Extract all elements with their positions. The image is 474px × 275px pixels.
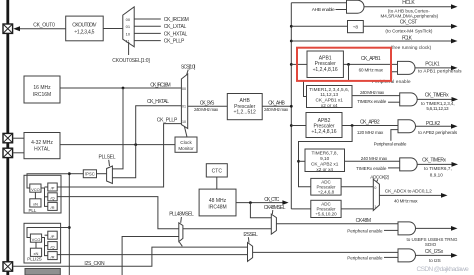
oscillator block HXTAL [24, 133, 60, 159]
svg-text:CK_LXTAL: CK_LXTAL [164, 24, 187, 30]
svg-text:SDIO: SDIO [425, 242, 437, 247]
junction PLL feed top [68, 172, 71, 175]
svg-text:/R: /R [51, 205, 55, 210]
wire TIMER6 output to gate [345, 160, 400, 162]
wire PLLI2S internal VCO to dividers [42, 238, 48, 256]
svg-text:CK_ADCX to ADC0,1,2: CK_ADCX to ADC0,1,2 [385, 188, 432, 194]
block PLL outer [24, 175, 61, 213]
select line into I2SSEL mux [247, 237, 250, 242]
wire TIMERx enable stub [388, 167, 400, 169]
wire peripheral enable riser PCLK2 [391, 130, 398, 141]
wire AHB enable stub [336, 9, 347, 11]
wire peripheral enable stub USB [384, 229, 398, 231]
svg-text:11,12,13: 11,12,13 [320, 92, 338, 97]
svg-text:Peripheral enable: Peripheral enable [347, 229, 383, 234]
junction CK_AHB feed [290, 105, 293, 108]
select line into SCS mux [186, 70, 188, 78]
wire bus to HCLK gate [291, 2, 346, 4]
svg-text:SCS[1:0]: SCS[1:0] [181, 64, 196, 70]
wire CK_IRC16M from IRC16M to SCS mux [60, 87, 181, 89]
wire pin to HXTAL box (top) [13, 137, 24, 139]
block PLLI2S /R [48, 252, 57, 260]
svg-text:/Q: /Q [50, 196, 54, 201]
wire mux input stub 00 [134, 18, 161, 20]
wire /PSC output to PLL feed [69, 173, 83, 175]
block APB2 Prescaler [306, 113, 342, 138]
block CTC [206, 164, 227, 177]
svg-text:/R: /R [51, 254, 55, 259]
wire IRC48M down to CK48M mux [250, 203, 271, 218]
svg-text:00: 00 [182, 87, 186, 91]
block Clock Monitor [175, 137, 197, 152]
svg-text:÷1,2,4,8,16: ÷1,2,4,8,16 [313, 67, 338, 73]
svg-text:8,9,10: 8,9,10 [430, 172, 443, 177]
mux PLL48MSEL [179, 223, 183, 242]
link SCS mux to clock monitor [184, 126, 187, 137]
svg-text:CK_OUT0: CK_OUT0 [33, 22, 55, 28]
oscillator block IRC48M [199, 189, 236, 216]
svg-text:0: 0 [374, 186, 376, 190]
svg-text:IRC16M: IRC16M [33, 92, 51, 98]
svg-text:(free running clock): (free running clock) [391, 45, 432, 50]
junction PLL feed to PLLI2S [68, 226, 71, 229]
svg-text:4-32 MHz: 4-32 MHz [31, 140, 53, 146]
junction IRC48M branch [249, 201, 252, 204]
wire wrap into TIMER6 block [299, 160, 306, 162]
svg-text:to APB2 peripherals: to APB2 peripherals [418, 130, 458, 135]
svg-text:CK_HXTAL: CK_HXTAL [164, 31, 188, 37]
svg-text:10: 10 [126, 31, 131, 36]
svg-text:240 MHz max: 240 MHz max [264, 107, 289, 112]
wire PLL48MSEL output to CK48M mux [183, 228, 271, 230]
block TIMER multiplier APB2 [305, 149, 345, 172]
wire mux input stub 10 [134, 32, 161, 34]
wire APB2 wrap to TIMER/ADC [299, 126, 353, 187]
svg-text:CK_AHB: CK_AHB [268, 101, 285, 107]
block PLL VCO [30, 184, 41, 192]
junction APB2 wrap to TIMER6 [297, 160, 300, 163]
wire ADC prescaler 2 to ADCCK mux [341, 208, 373, 210]
svg-text:CK_TIMERx: CK_TIMERx [422, 158, 446, 164]
block TIMER multiplier APB1 [307, 86, 353, 109]
junction bus to APB2 [290, 124, 293, 127]
svg-text:÷8: ÷8 [353, 25, 359, 31]
and-gate CK_TIMERx (APB2) [400, 158, 418, 171]
svg-text:PCLK1: PCLK1 [425, 61, 440, 67]
svg-text:AHB enable: AHB enable [312, 7, 335, 13]
svg-text:TIMERx enable: TIMERx enable [357, 99, 386, 104]
svg-text:CK_SYS: CK_SYS [200, 101, 215, 107]
highlight red box around APB1 prescaler [297, 48, 391, 81]
block divider by 8 [348, 21, 364, 33]
svg-text:CTC: CTC [212, 169, 223, 175]
wire TIMERx enable stub [388, 101, 400, 103]
wire bus bottom into ADC prescaler 2 [291, 208, 311, 210]
svg-text:CK_PLLP: CK_PLLP [164, 39, 185, 45]
svg-text:M4,SRAM,DMA,peripherals): M4,SRAM,DMA,peripherals) [381, 14, 439, 19]
svg-text:x2 or x4: x2 or x4 [321, 103, 338, 108]
wire CK_TIMERx output with arrow [417, 163, 452, 165]
svg-text:CK_TIMERx: CK_TIMERx [425, 93, 449, 99]
svg-text:÷2,4,6,8: ÷2,4,6,8 [318, 189, 335, 194]
svg-text:CSDN @dajkhadawe: CSDN @dajkhadawe [417, 266, 470, 273]
and-gate I2S clock [398, 249, 416, 262]
svg-text:÷1,2,3,4,5: ÷1,2,3,4,5 [74, 30, 94, 36]
svg-text:CK_IRC16M: CK_IRC16M [150, 83, 170, 89]
block hidden PLL (cut off at bottom) [25, 269, 60, 275]
svg-text:VCO: VCO [32, 237, 41, 242]
junction CK_APB2 branch [351, 124, 354, 127]
block PLLI2S outer [24, 223, 61, 263]
svg-text:TIMER1,2,3,4,5,6,: TIMER1,2,3,4,5,6, [309, 87, 349, 92]
wire CK_I2Sx to I2S gate [253, 251, 398, 253]
svg-text:/P: /P [51, 186, 55, 191]
svg-text:PLLI2S: PLLI2S [27, 256, 41, 261]
wire CK_PLLP from /P to SCS input 10 [57, 124, 181, 187]
svg-text:CKOUT0SEL[1:0]: CKOUT0SEL[1:0] [112, 58, 150, 64]
svg-text:xN: xN [33, 202, 38, 207]
mux CK48MSEL [271, 214, 276, 234]
wire CK_OUT0 with arrow into pin [20, 28, 66, 30]
pin CK_OUT0 [3, 24, 13, 33]
wire APB1 wrap to TIMER multiplier [304, 64, 349, 96]
wire CK_APB2 to PCLK2 gate [342, 125, 398, 127]
svg-text:to I2S: to I2S [429, 258, 441, 263]
svg-text:9,10: 9,10 [320, 156, 330, 161]
junction bus to divider [290, 25, 293, 28]
wire CK_HXTAL riser to SCS input 01 [136, 106, 182, 145]
block PLL xN [30, 199, 41, 207]
wire PLL feed vertical [68, 174, 70, 275]
svg-text:CK_APB1: CK_APB1 [361, 56, 381, 62]
wire PCLK1 output with arrow [415, 67, 452, 69]
svg-text:(to Cortex-M4 SysTick): (to Cortex-M4 SysTick) [385, 28, 432, 33]
svg-text:CK_CST: CK_CST [400, 19, 418, 25]
block PLL /Q [48, 193, 57, 201]
wire mux input stub 01 [134, 25, 161, 27]
wire CK_SYS from SCS mux to AHB prescaler [188, 105, 228, 107]
svg-text:00: 00 [126, 17, 131, 22]
junction on CK_IRC16M for PLLSEL [122, 87, 125, 90]
svg-text:01: 01 [182, 105, 186, 109]
svg-text:CK48M: CK48M [356, 218, 372, 224]
svg-text:240 MHz max: 240 MHz max [361, 156, 388, 161]
svg-text:240 MHz max: 240 MHz max [194, 107, 219, 112]
wire CK_I2Sx output with arrow [416, 254, 453, 256]
wire CK_PLLQ from /Q to PLL48MSEL [57, 197, 179, 229]
pin HXTAL out [3, 148, 13, 157]
oscillator block IRC16M [24, 76, 60, 103]
wire CTC to IRC48M [216, 177, 218, 189]
left I/O rail bus [6, 0, 9, 275]
block AHB Prescaler [227, 94, 262, 120]
wire pin to HXTAL box (bottom) [13, 152, 24, 154]
select line into ADCCK mux [377, 179, 378, 181]
wire PLLSEL output to /PSC [97, 173, 107, 175]
wire CK_HXTAL from HXTAL to Clock Monitor [60, 144, 175, 146]
svg-text:PLL48MSEL: PLL48MSEL [169, 212, 194, 218]
svg-text:I2S_CKIN: I2S_CKIN [84, 261, 105, 267]
svg-text:FCLK: FCLK [402, 36, 413, 42]
wire riser from hidden PLL to PLL48MSEL [122, 237, 179, 275]
svg-text:5,6,11,12,13: 5,6,11,12,13 [426, 106, 449, 111]
wire CK_CTC with arrow [236, 202, 284, 204]
svg-text:Peripheral enable: Peripheral enable [347, 256, 383, 261]
svg-text:CK_I2Sx: CK_I2Sx [425, 249, 444, 255]
svg-text:to TIMER6,7,: to TIMER6,7, [424, 166, 452, 171]
wire CK_ADCx output with arrow [379, 194, 442, 196]
svg-text:I2SSEL: I2SSEL [243, 232, 258, 238]
wire CK_PLLI2SR from /R to I2SSEL mux [57, 254, 247, 256]
wire CK_CST output with arrow [363, 25, 452, 27]
wire mux input stub 11 [134, 40, 161, 42]
svg-text:/Q: /Q [50, 244, 54, 249]
select line into PLL48MSEL mux [180, 217, 183, 223]
svg-text:xN: xN [34, 251, 39, 256]
junction bus to FCLK [290, 40, 293, 43]
wire peripheral enable riser PCLK1 [392, 72, 398, 80]
svg-text:x2 or x4: x2 or x4 [316, 167, 333, 172]
svg-text:CK48MSEL: CK48MSEL [264, 205, 286, 211]
svg-text:Peripheral enable: Peripheral enable [374, 142, 407, 147]
select line into CK48M mux [271, 210, 274, 214]
wire PCLK2 output with arrow [416, 125, 453, 127]
wire bus to divide-by-8 [291, 25, 347, 27]
svg-text:CK_CTC: CK_CTC [264, 197, 280, 203]
wire bus to APB1 prescaler [291, 63, 307, 65]
svg-text:HXTAL: HXTAL [34, 147, 50, 153]
svg-text:÷5,6,10,20: ÷5,6,10,20 [315, 212, 337, 217]
svg-text:Clock: Clock [180, 140, 192, 145]
and-gate USB/TRNG/SDIO clock [398, 222, 416, 235]
block PLLI2S xN [30, 248, 41, 256]
wire PLL internal xN to VCO [34, 192, 36, 199]
pin I2S_CKIN [3, 262, 13, 271]
svg-text:60 MHz max: 60 MHz max [359, 68, 384, 73]
wire CKOUT0DIV to mux [103, 28, 123, 30]
and-gate PCLK2 [398, 120, 416, 133]
wire CK_AHB vertical distribution bus [290, 3, 292, 209]
svg-text:Monitor: Monitor [178, 146, 194, 151]
wire CK_APB1 to PCLK1 gate [343, 63, 397, 65]
svg-text:10: 10 [182, 120, 186, 124]
wire FCLK with arrow [291, 40, 452, 42]
block ADC Prescaler /2,4,6,8 [311, 178, 341, 195]
svg-text:PCLK2: PCLK2 [426, 121, 441, 127]
and-gate PCLK1 [398, 61, 416, 74]
wire I2S_CKIN from pin to I2SSEL [13, 247, 248, 266]
svg-text:1: 1 [374, 205, 376, 209]
wire CK_TIMERx output with arrow [417, 98, 452, 100]
mux PLLSEL [107, 166, 113, 184]
svg-text:÷1,2...512: ÷1,2...512 [234, 109, 256, 115]
svg-text:/PSC: /PSC [85, 172, 95, 177]
block PLL /P [48, 183, 57, 191]
select line into PLLSEL mux [108, 160, 111, 166]
block PLLI2S /P [48, 231, 57, 239]
svg-text:PLL: PLL [29, 208, 37, 213]
svg-text:TIMERx enable: TIMERx enable [356, 166, 387, 171]
block CKOUT0DIV [66, 16, 104, 41]
block /PSC predivider [83, 170, 96, 178]
svg-text:48 MHz: 48 MHz [209, 198, 227, 204]
svg-text:40 MHz max: 40 MHz max [394, 199, 418, 204]
wire HCLK output with arrow [364, 6, 452, 8]
junction CK_APB1 branch [347, 63, 350, 66]
mux I2SSEL [248, 243, 253, 262]
svg-text:to APB1 peripherals: to APB1 peripherals [418, 68, 462, 73]
mux SCS (system clock select) [181, 74, 187, 129]
select tail PLL48MSEL [179, 242, 182, 246]
svg-text:CK_APB2: CK_APB2 [360, 119, 380, 125]
svg-text:CK_HXTAL: CK_HXTAL [147, 99, 169, 105]
svg-text:CK_IRC16M: CK_IRC16M [164, 17, 189, 23]
wire HXTAL riser to PLLSEL [112, 145, 135, 178]
svg-text:01: 01 [126, 24, 131, 29]
svg-text:240 MHz max: 240 MHz max [360, 90, 385, 95]
wire IRC16M riser to PLLSEL [112, 88, 123, 169]
and-gate CK_TIMERx (APB1) [400, 93, 418, 106]
wire USB clock output with arrow [416, 227, 453, 229]
block APB1 Prescaler [307, 51, 343, 78]
svg-text:120 MHz max: 120 MHz max [357, 130, 384, 135]
svg-text:IRC48M: IRC48M [208, 205, 226, 211]
block ADC Prescaler /5,6,10,20 [311, 200, 341, 217]
svg-text:HCLK: HCLK [402, 0, 415, 6]
svg-text:16 MHz: 16 MHz [33, 85, 51, 91]
wire PLL internal VCO to dividers [41, 188, 48, 206]
junction CK_HXTAL branch [134, 143, 137, 146]
mux ADCCK [373, 179, 379, 210]
and-gate HCLK [347, 0, 365, 13]
svg-text:PLLSEL: PLLSEL [99, 155, 116, 161]
svg-text:CK_APB2 x1: CK_APB2 x1 [311, 162, 339, 167]
svg-text:TIMER6,7,8,: TIMER6,7,8, [312, 151, 338, 156]
svg-text:CK_APB1 x1: CK_APB1 x1 [316, 98, 344, 103]
wire CK48M to USB gate [276, 223, 398, 225]
block PLLI2S VCO [30, 234, 41, 242]
wire CK_AHB to bus [262, 105, 291, 107]
wire bus to APB2 prescaler [291, 125, 306, 127]
svg-text:/P: /P [51, 234, 55, 239]
wire feed into PLL block [27, 174, 69, 188]
wire feed into PLLI2S block [27, 228, 69, 238]
junction bus to APB1 [290, 63, 293, 66]
block PLL /R [48, 202, 57, 210]
svg-text:÷1,2,4,8,16: ÷1,2,4,8,16 [312, 129, 337, 135]
pin HXTAL in [3, 133, 13, 142]
wire ADC prescaler 1 to ADCCK mux [341, 186, 373, 188]
wire PLLI2S internal xN to VCO [35, 242, 37, 248]
svg-text:CK_PLLP: CK_PLLP [157, 118, 178, 124]
svg-text:CKOUT0DIV: CKOUT0DIV [72, 22, 97, 28]
block PLLI2S /Q [48, 242, 57, 250]
svg-text:VCO: VCO [31, 187, 40, 192]
mux CKOUT0SEL [123, 7, 134, 55]
wire peripheral enable stub I2S [384, 256, 398, 258]
wire TIMER1 output to gate [352, 95, 400, 97]
